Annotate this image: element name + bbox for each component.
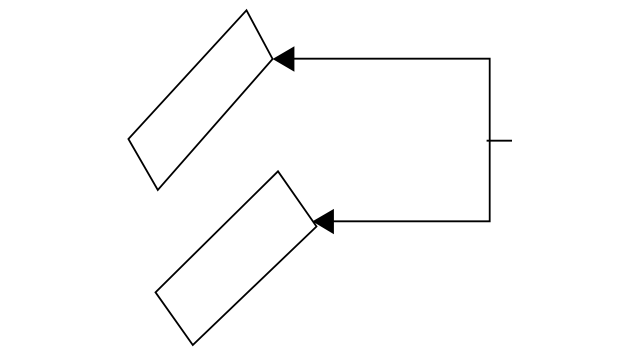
- wire from node to upper arrow (horizontal then vertical connector): [293, 59, 490, 222]
- arrowhead 1 (into rectangle 1): [273, 46, 295, 71]
- arrowhead 2 (into rectangle 2): [312, 209, 334, 234]
- rotated rectangle 1 (upper box): [128, 10, 272, 190]
- rotated rectangle 2 (lower box): [156, 171, 317, 345]
- tick mark on vertical wire: [487, 140, 512, 142]
